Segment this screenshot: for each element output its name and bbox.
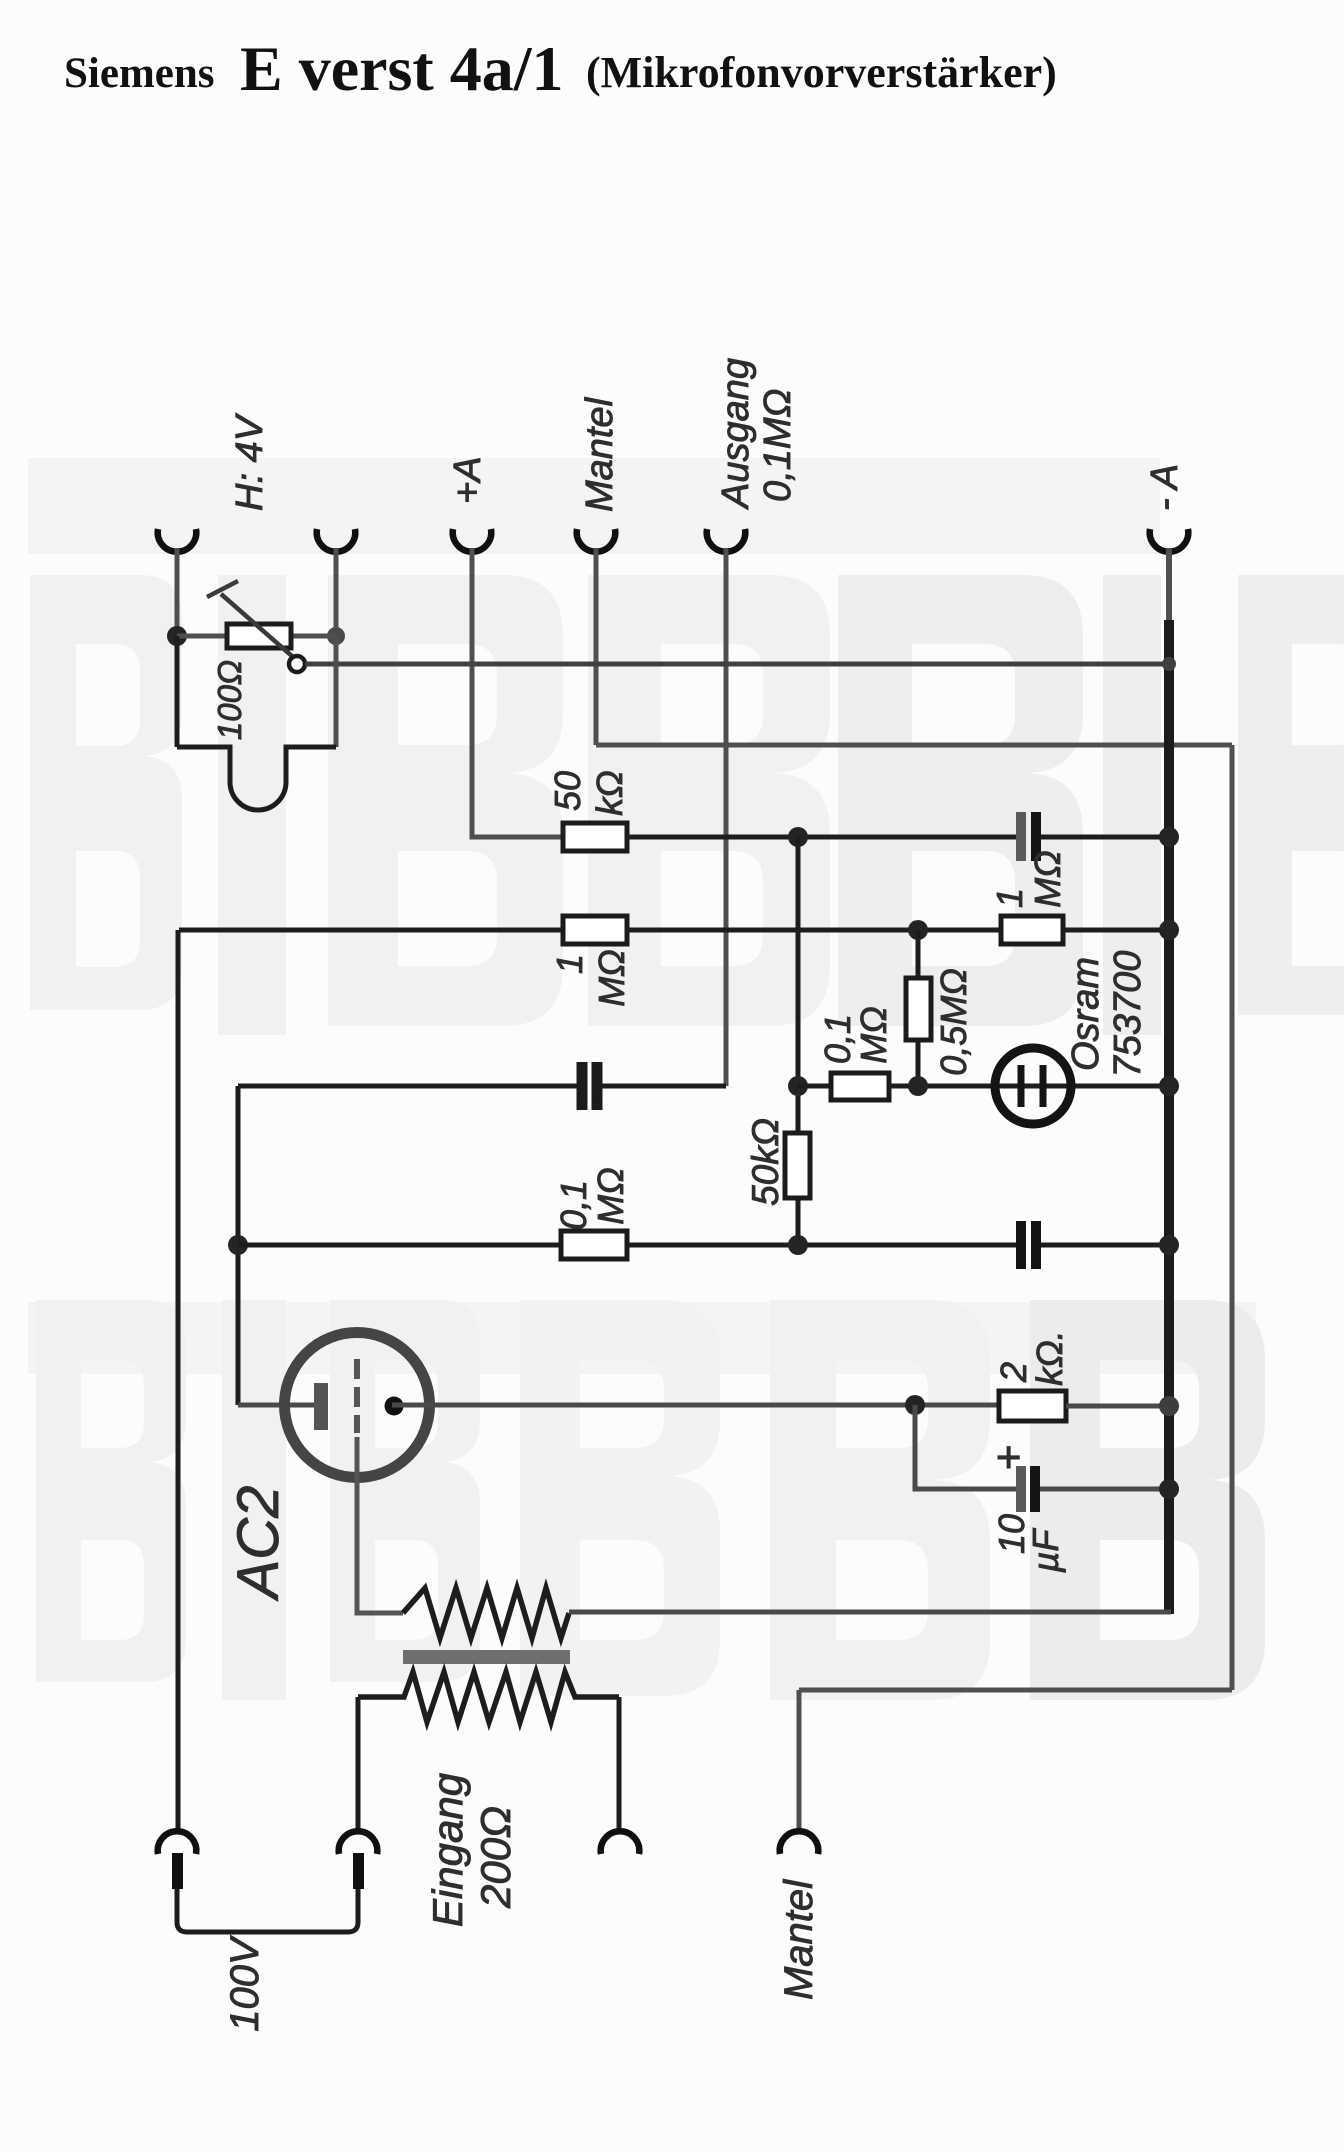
- resistor 50k (anode supply): [563, 823, 627, 851]
- node junction H1-pot: [167, 626, 187, 646]
- svg-text:kΩ: kΩ: [589, 770, 630, 815]
- node junction wiper-rail: [1162, 657, 1176, 671]
- wire cap to -A rail: [1041, 835, 1169, 840]
- resistor 50k vertical: [785, 1133, 810, 1198]
- terminal +A: [453, 529, 492, 552]
- wire H1 lead down: [175, 548, 180, 636]
- node junction rail y1406: [1159, 1396, 1179, 1416]
- bypass capacitor left plate: [1016, 1221, 1026, 1269]
- svg-text:(Mikrofonvorverstärker): (Mikrofonvorverstärker): [586, 48, 1057, 97]
- terminal H2 (heater 4V right): [317, 529, 356, 552]
- triode AC2 envelope: [285, 1333, 430, 1478]
- watermark: [28, 458, 1344, 1700]
- svg-text:Siemens: Siemens: [64, 50, 215, 97]
- wire 2k to rail: [1066, 1404, 1169, 1409]
- svg-text:200Ω: 200Ω: [472, 1806, 519, 1909]
- glow lamp Osram 753700: [995, 1048, 1071, 1124]
- svg-text:MΩ: MΩ: [1027, 850, 1068, 907]
- wire wiper to -A rail: [305, 662, 1169, 667]
- wire Ausgang lead down: [724, 548, 729, 1086]
- wire bypass cap to rail: [1041, 1243, 1169, 1248]
- wire heater left down: [175, 636, 180, 747]
- svg-text:µF: µF: [1025, 1528, 1066, 1574]
- wire cap to Ausgang corner: [599, 1084, 726, 1089]
- node junction x238 y1245: [228, 1235, 248, 1255]
- wire 10uF to rail: [1040, 1487, 1169, 1492]
- svg-text:50: 50: [547, 771, 588, 811]
- resistor 0,1M bottom: [561, 1231, 627, 1259]
- resistor 0,5M: [906, 978, 931, 1040]
- svg-text:AC2: AC2: [226, 1486, 291, 1602]
- heater filament loop: [177, 747, 336, 810]
- label 10 uF: [991, 1514, 1066, 1573]
- coupling capacitor right plate: [592, 1062, 603, 1110]
- svg-text:1: 1: [549, 954, 590, 974]
- resistor 1M right: [1001, 916, 1063, 944]
- potentiometer wiper contact circle: [289, 656, 305, 672]
- wire Mantel to bottom terminal: [797, 1690, 802, 1833]
- label 0,1 MOhm bottom: [553, 1167, 631, 1230]
- terminal Eingang right: [601, 1831, 640, 1854]
- terminal Mantel (top): [577, 529, 616, 552]
- transformer primary winding (input side): [358, 1672, 619, 1722]
- AC2 anode plate: [314, 1383, 328, 1430]
- capacitor top-right right plate: [1031, 812, 1041, 861]
- svg-text:Osram: Osram: [1065, 957, 1107, 1071]
- terminal 100V right: [339, 1831, 378, 1854]
- label Ausgang 0,1MOhm: [715, 358, 799, 510]
- wire anode corner down: [236, 1086, 241, 1405]
- node junction x798 y1245: [788, 1235, 808, 1255]
- wire anode line left part: [238, 1084, 577, 1089]
- svg-text:MΩ: MΩ: [591, 949, 632, 1006]
- wire 0,1M to lamp: [889, 1084, 1169, 1089]
- resistor 0,1M middle: [831, 1073, 889, 1100]
- wire grid-line left segment: [179, 928, 563, 933]
- label 50 kOhm top: [547, 770, 630, 815]
- label 1 MOhm left: [549, 949, 632, 1006]
- node junction rail y1489: [1159, 1479, 1179, 1499]
- wire Mantel across right: [596, 743, 1232, 748]
- title: [64, 33, 1057, 104]
- wire transformer to -A rail: [569, 1610, 1171, 1615]
- wire pot left: [177, 634, 227, 639]
- svg-text:Ausgang: Ausgang: [715, 358, 757, 510]
- terminal 100V left: [158, 1831, 197, 1854]
- plug pin 100V left: [172, 1853, 183, 1889]
- svg-text:+A: +A: [447, 456, 489, 504]
- svg-text:1: 1: [989, 888, 1030, 908]
- terminal H1 (heater 4V left): [158, 529, 197, 552]
- node junction rail y837: [1159, 827, 1179, 847]
- wire heater right down: [334, 636, 339, 747]
- node junction cathode x915: [905, 1395, 925, 1415]
- wire pot right: [291, 634, 336, 639]
- svg-text:753700: 753700: [1107, 951, 1149, 1078]
- wire primary right leg: [617, 1697, 622, 1833]
- plug pin 100V right: [353, 1853, 364, 1889]
- resistor 2k: [999, 1391, 1066, 1421]
- wire vertical rail x798: [796, 837, 801, 1245]
- svg-text:Eingang: Eingang: [424, 1773, 471, 1927]
- wire Mantel right side down: [1230, 745, 1235, 1690]
- AC2 grid (dashed): [354, 1359, 360, 1433]
- svg-text:100V: 100V: [223, 1935, 267, 2032]
- wire x798 to 0,1M: [798, 1084, 831, 1089]
- electrolytic 10uF right plate: [1030, 1466, 1040, 1512]
- node junction 50k line / 798 rail: [788, 827, 808, 847]
- bypass capacitor right plate: [1031, 1221, 1041, 1269]
- lamp electrode left: [1018, 1065, 1025, 1107]
- svg-text:- A: - A: [1144, 464, 1186, 511]
- resistor 1M left: [563, 916, 627, 944]
- svg-text:0,1: 0,1: [553, 1180, 594, 1230]
- svg-text:0,5MΩ: 0,5MΩ: [933, 968, 974, 1075]
- wire 100V jumper: [177, 1889, 358, 1932]
- svg-text:50kΩ: 50kΩ: [745, 1118, 786, 1206]
- AC2 cathode dot: [385, 1397, 404, 1416]
- svg-text:2: 2: [993, 1362, 1034, 1383]
- svg-text:0,1MΩ: 0,1MΩ: [757, 389, 799, 502]
- wire anode feed: [238, 1403, 316, 1408]
- node junction rail y1086: [1159, 1076, 1179, 1096]
- svg-text:MΩ: MΩ: [853, 1006, 894, 1063]
- wire -A lead: [1166, 548, 1172, 625]
- label 2 kOhm: [993, 1330, 1070, 1385]
- wire H2 lead down: [334, 548, 339, 636]
- svg-text:MΩ: MΩ: [590, 1167, 631, 1224]
- wire grid return left: [238, 1243, 561, 1248]
- wire 0,1M bottom to rail798: [627, 1243, 1016, 1248]
- svg-text:Mantel: Mantel: [579, 396, 621, 512]
- node junction 0,5M bottom: [908, 1076, 928, 1096]
- wire 10uF branch down: [915, 1405, 1016, 1489]
- coupling capacitor left plate: [577, 1062, 588, 1110]
- svg-text:E verst 4a/1: E verst 4a/1: [240, 33, 564, 104]
- node junction rail y1245: [1159, 1235, 1179, 1255]
- wire Mantel bottom across left: [799, 1688, 1232, 1693]
- wire 50k to cap: [627, 835, 1016, 840]
- svg-text:Mantel: Mantel: [777, 1879, 821, 2000]
- wire 0,5M bottom lead: [916, 1040, 921, 1086]
- wire Mantel top down: [594, 548, 599, 745]
- label Osram 753700: [1065, 951, 1149, 1078]
- wire 1M right to rail: [1063, 928, 1169, 933]
- wire cathode to 2k: [392, 1403, 999, 1408]
- node junction rail y930: [1159, 920, 1179, 940]
- wire -A bus rail: [1164, 620, 1174, 1614]
- transformer core: [403, 1650, 570, 1664]
- potentiometer arrow tick: [207, 581, 238, 597]
- terminal Ausgang: [707, 529, 746, 552]
- node junction H2-pot: [327, 627, 345, 645]
- label 0,1 MOhm middle: [817, 1006, 894, 1064]
- node junction x798 y1086: [788, 1076, 808, 1096]
- lamp electrode right: [1040, 1065, 1047, 1107]
- electrolytic 10uF left plate: [1016, 1466, 1026, 1512]
- label 1 MOhm right: [989, 850, 1068, 908]
- svg-text:0,1: 0,1: [817, 1014, 858, 1064]
- svg-text:100Ω: 100Ω: [211, 660, 248, 740]
- svg-text:H: 4V: H: 4V: [229, 412, 271, 511]
- svg-text:kΩ.: kΩ.: [1029, 1330, 1070, 1385]
- wire 1M to 0,5M junction: [627, 928, 1001, 933]
- potentiometer arrow: [221, 594, 293, 657]
- wire left rail to bottom terminal: [176, 930, 181, 1833]
- potentiometer 100 Ohm body: [227, 624, 291, 648]
- terminal Mantel bottom: [780, 1831, 819, 1854]
- terminal -A: [1150, 529, 1189, 552]
- wire +A lead down to 50k: [472, 548, 563, 837]
- node junction 0,5M top: [908, 920, 928, 940]
- wire AC2 grid lead down: [357, 1437, 403, 1613]
- label Eingang 200 Ohm: [424, 1773, 519, 1927]
- wire 0,5M top lead: [916, 930, 921, 978]
- capacitor top-right left plate: [1016, 812, 1026, 861]
- wire primary left leg: [356, 1697, 361, 1833]
- transformer secondary winding (grid side): [403, 1588, 569, 1638]
